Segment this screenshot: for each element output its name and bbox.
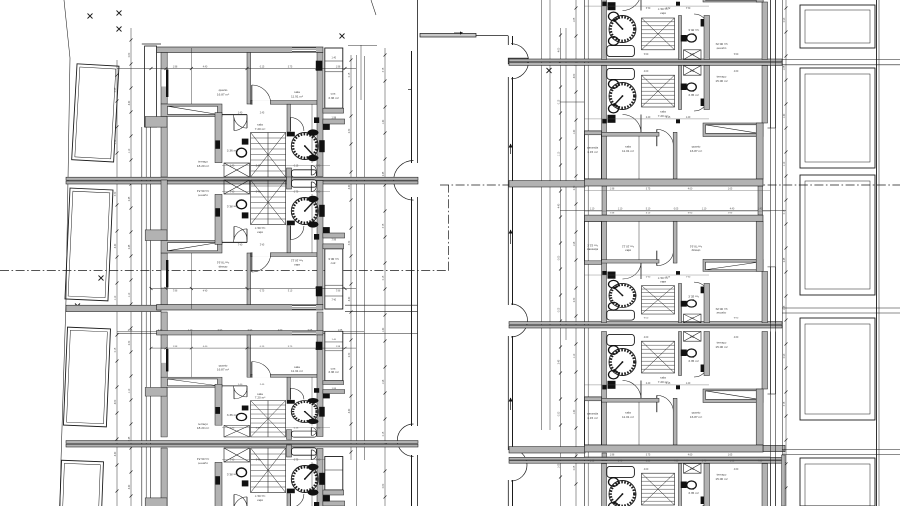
svg-text:1.40: 1.40 — [383, 119, 385, 124]
svg-text:1.10: 1.10 — [590, 209, 595, 211]
svg-text:2.30: 2.30 — [574, 297, 576, 302]
svg-text:4.40: 4.40 — [349, 184, 351, 189]
svg-text:1.65: 1.65 — [784, 65, 786, 70]
svg-text:3.75: 3.75 — [784, 401, 786, 406]
svg-text:4.40: 4.40 — [115, 451, 117, 456]
svg-text:2.45: 2.45 — [129, 196, 131, 201]
svg-text:0.05: 0.05 — [559, 307, 561, 312]
svg-text:1.10: 1.10 — [188, 330, 193, 332]
svg-text:3.30: 3.30 — [115, 191, 117, 196]
svg-text:0.93: 0.93 — [115, 87, 117, 92]
svg-text:4.40: 4.40 — [129, 100, 131, 105]
svg-text:0.05: 0.05 — [574, 465, 576, 470]
svg-text:2.30: 2.30 — [574, 185, 576, 190]
svg-text:1.65: 1.65 — [338, 330, 343, 332]
svg-text:0.93: 0.93 — [784, 353, 786, 358]
svg-text:1.10: 1.10 — [129, 148, 131, 153]
svg-text:4.60: 4.60 — [559, 47, 561, 52]
svg-text:1.40: 1.40 — [618, 461, 623, 463]
svg-text:1.10: 1.10 — [115, 295, 117, 300]
svg-text:0.15: 0.15 — [559, 99, 561, 104]
svg-text:0.05: 0.05 — [784, 449, 786, 454]
svg-text:2.45: 2.45 — [383, 171, 385, 176]
svg-text:1.40: 1.40 — [784, 113, 786, 118]
svg-text:3.75: 3.75 — [383, 223, 385, 228]
svg-text:1.98: 1.98 — [784, 305, 786, 310]
svg-text:1.10: 1.10 — [702, 209, 707, 211]
svg-text:0.60: 0.60 — [383, 483, 385, 488]
svg-text:2.45: 2.45 — [129, 244, 131, 249]
svg-text:0.15: 0.15 — [784, 209, 786, 214]
svg-text:0.15: 0.15 — [349, 72, 351, 77]
svg-text:4.40: 4.40 — [349, 296, 351, 301]
svg-text:5.10: 5.10 — [646, 209, 651, 211]
svg-text:4.40: 4.40 — [129, 484, 131, 489]
svg-text:4.40: 4.40 — [730, 209, 735, 211]
svg-text:1.65: 1.65 — [559, 463, 561, 468]
svg-text:1.10: 1.10 — [559, 151, 561, 156]
svg-text:2.45: 2.45 — [129, 436, 131, 441]
svg-text:4.60: 4.60 — [758, 461, 763, 463]
svg-text:4.60: 4.60 — [278, 330, 283, 332]
svg-text:2.45: 2.45 — [784, 257, 786, 262]
svg-text:1.40: 1.40 — [574, 129, 576, 134]
svg-text:1.10: 1.10 — [129, 292, 131, 297]
svg-text:3.75: 3.75 — [115, 139, 117, 144]
svg-text:1.98: 1.98 — [574, 241, 576, 246]
svg-text:0.60: 0.60 — [129, 52, 131, 57]
svg-text:2.30: 2.30 — [349, 352, 351, 357]
svg-text:2.30: 2.30 — [129, 340, 131, 345]
svg-text:2.45: 2.45 — [559, 359, 561, 364]
svg-text:0.93: 0.93 — [248, 330, 253, 332]
svg-text:0.60: 0.60 — [559, 255, 561, 260]
svg-text:1.40: 1.40 — [383, 327, 385, 332]
svg-text:4.40: 4.40 — [559, 203, 561, 208]
svg-text:1.65: 1.65 — [590, 461, 595, 463]
svg-text:0.93: 0.93 — [784, 17, 786, 22]
svg-text:3.30: 3.30 — [349, 240, 351, 245]
svg-text:0.15: 0.15 — [383, 431, 385, 436]
svg-text:4.40: 4.40 — [349, 408, 351, 413]
svg-text:0.15: 0.15 — [383, 275, 385, 280]
svg-text:1.65: 1.65 — [574, 17, 576, 22]
svg-text:0.05: 0.05 — [674, 209, 679, 211]
svg-text:1.10: 1.10 — [129, 388, 131, 393]
svg-text:0.05: 0.05 — [308, 330, 313, 332]
svg-text:1.98: 1.98 — [383, 379, 385, 384]
svg-text:4.60: 4.60 — [115, 399, 117, 404]
svg-text:4.40: 4.40 — [158, 330, 163, 332]
svg-text:2.70: 2.70 — [702, 461, 707, 463]
svg-text:2.45: 2.45 — [128, 330, 133, 332]
svg-text:4.40: 4.40 — [115, 243, 117, 248]
svg-text:2.30: 2.30 — [349, 128, 351, 133]
svg-text:4.60: 4.60 — [574, 73, 576, 78]
svg-text:0.93: 0.93 — [218, 330, 223, 332]
svg-text:3.75: 3.75 — [383, 67, 385, 72]
svg-text:1.10: 1.10 — [574, 353, 576, 358]
svg-text:3.30: 3.30 — [646, 461, 651, 463]
svg-text:1.40: 1.40 — [574, 409, 576, 414]
svg-text:1.40: 1.40 — [758, 209, 763, 211]
svg-text:4.60: 4.60 — [674, 461, 679, 463]
svg-text:1.65: 1.65 — [730, 461, 735, 463]
svg-text:1.10: 1.10 — [618, 209, 623, 211]
svg-text:0.15: 0.15 — [115, 347, 117, 352]
svg-text:1.10: 1.10 — [784, 161, 786, 166]
svg-text:0.93: 0.93 — [559, 411, 561, 416]
